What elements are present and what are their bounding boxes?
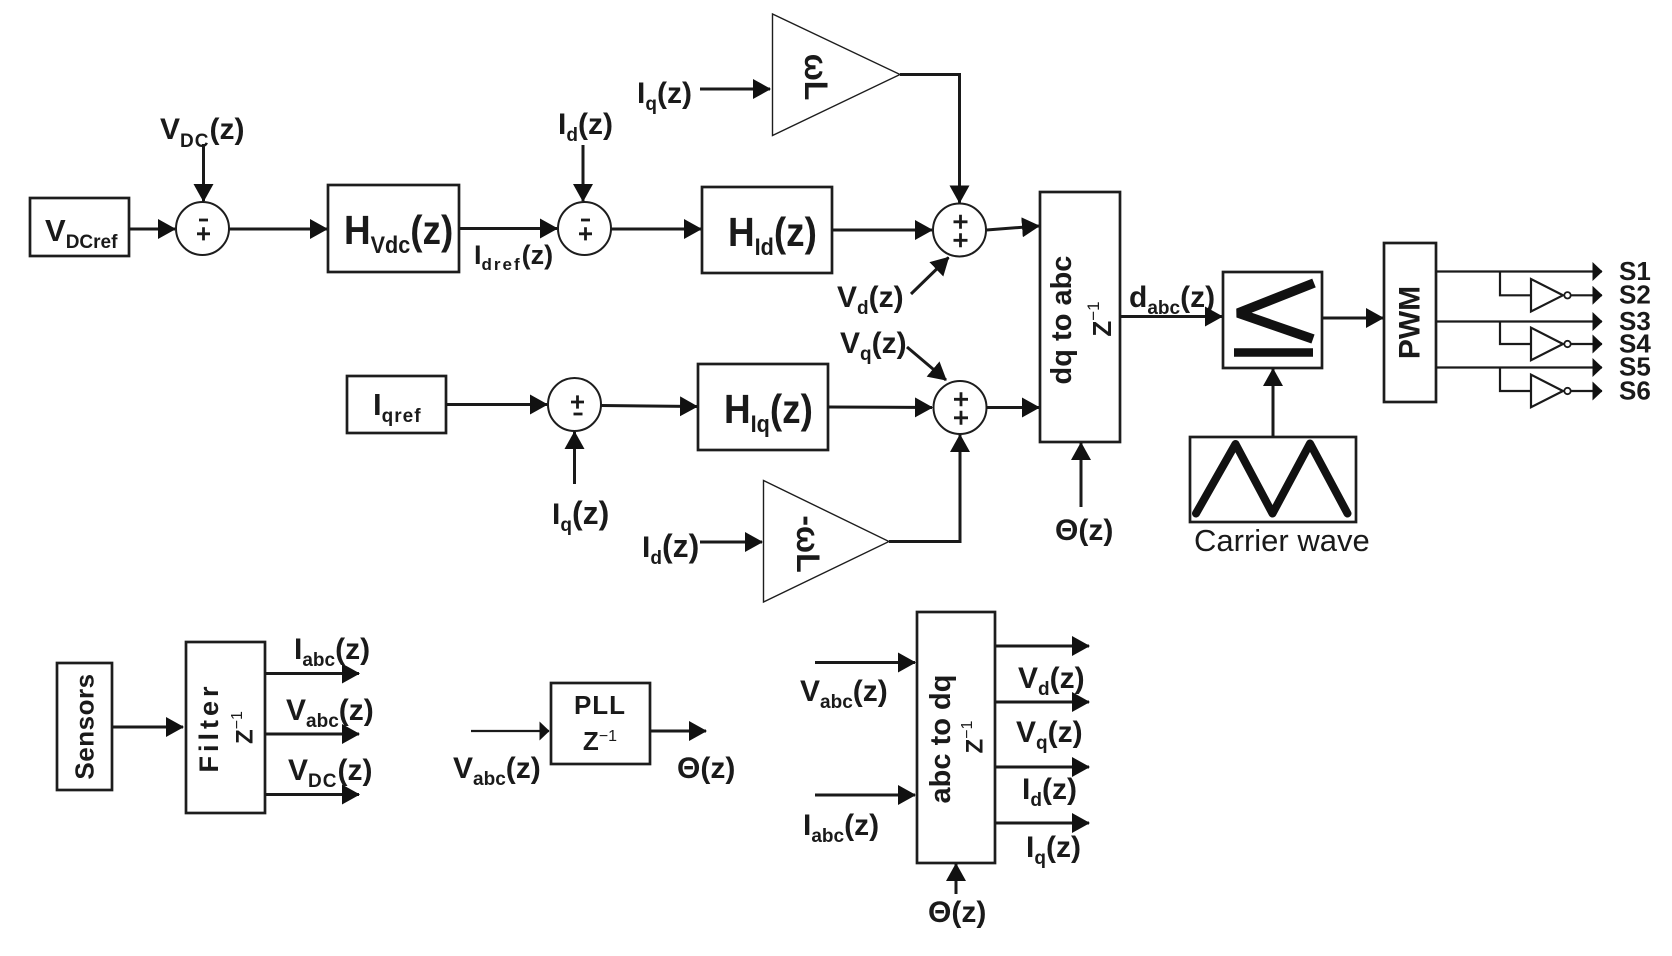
svg-text:Id(z): Id(z) [1022,773,1077,811]
wire VDCref to sum1 [129,228,175,231]
wire S5 from PWM [1436,366,1602,368]
wire Sensors to Filter [112,726,183,729]
svg-text:Iq(z): Iq(z) [637,77,692,115]
wire branch to gate2 [1500,322,1531,345]
wire Iqref to sum4 [446,403,547,406]
wire Filter out VDC [265,793,359,796]
svg-text:Vq(z): Vq(z) [1016,716,1083,754]
block HId [702,187,832,273]
wire comparator to PWM [1322,317,1383,320]
svg-text:Θ(z): Θ(z) [1055,514,1113,547]
wire branch to gate1 [1500,272,1531,296]
block Filter [186,642,265,813]
wire sum4 to HIq [601,406,697,407]
wire Id(z) to gain -wL [700,541,762,544]
wire Vq(z) into sum5 [907,347,946,380]
not gate G2 [1531,328,1571,361]
svg-text:Filter: Filter [194,682,224,772]
summing junction sum3 [933,204,986,257]
svg-text:Carrier wave: Carrier wave [1194,523,1370,558]
wire wL to sum3 [900,75,960,203]
svg-text:ωL: ωL [798,54,834,101]
wire Id(z) into sum2 [582,145,585,201]
block abc to dq [917,612,995,863]
svg-text:S2: S2 [1619,280,1651,310]
wire abcdq out Id [995,766,1089,769]
wire -wL to sum5 [889,435,960,542]
gain wL triangle [773,14,901,136]
wire sum2 to HId [611,228,701,231]
block Iqref [347,376,446,433]
svg-text:S6: S6 [1619,376,1651,406]
wire gate3 to S6 [1571,390,1602,392]
wire S1 from PWM [1436,270,1602,272]
svg-text:Id(z): Id(z) [558,108,613,146]
wire VDC(z) into sum1 [202,144,205,201]
block Sensors [57,663,112,790]
svg-text:dq to abc: dq to abc [1046,256,1078,385]
block VDCref [30,198,129,256]
svg-text:Θ(z): Θ(z) [677,752,735,785]
wire abcdq out Vq [995,701,1089,704]
wire PLL out [650,730,706,733]
wire Vd(z) into sum3 [911,258,949,295]
block dq to abc [1040,192,1120,442]
svg-text:abc to dq: abc to dq [925,675,957,804]
wire gate2 to S4 [1571,343,1602,345]
not gate G1 [1531,279,1571,312]
wire Vabc into PLL [471,730,549,732]
block PLL [551,683,650,764]
wire Iq(z) to gain wL [700,88,770,91]
svg-text:PWM: PWM [1394,286,1427,359]
wire Filter out Vabc [265,733,359,736]
wire Iabc into abcdq [815,794,915,797]
wire Filter out Iabc [265,672,359,675]
summing junction sum4 [548,378,601,431]
wire theta(z) into dq block [1080,443,1083,507]
wire S3 from PWM [1436,320,1602,322]
wire carrier to comparator [1272,369,1275,437]
not gate G3 [1531,375,1571,408]
wire Iq(z) up into sum4 [573,432,576,484]
svg-text:PLL: PLL [574,690,626,720]
wire abcdq out Vd [995,645,1089,648]
summing junction sum1 [176,202,229,255]
svg-text:Vd(z): Vd(z) [1018,662,1085,700]
wire gate1 to S2 [1571,294,1602,296]
wire dq block to comparator [1120,315,1222,318]
wire HId to sum3 [832,229,932,232]
svg-text:Θ(z): Θ(z) [928,896,986,929]
svg-text:Sensors: Sensors [70,673,100,779]
wire sum3 to dq block [987,226,1040,230]
svg-text:Iq(z): Iq(z) [1026,831,1081,869]
wire theta into abcdq [955,864,958,894]
summing junction sum5 [934,381,987,434]
wire branch to gate3 [1500,368,1531,392]
carrier wave block [1190,437,1356,522]
block PWM [1384,243,1436,402]
block HVdc [328,185,459,272]
summing junction sum2 [558,202,611,255]
block HIq [698,364,828,450]
wire HIq to sum5 [828,406,932,410]
comparator block [1223,272,1322,368]
svg-text:Vq(z): Vq(z) [840,327,907,365]
svg-text:Vd(z): Vd(z) [837,281,904,319]
wire sum1 to HVdc [229,228,327,231]
wire abcdq out Iq [995,822,1089,825]
wire sum5 to dq block [987,406,1040,409]
wire HVdc to sum2 [459,227,557,230]
wire Vabc into abcdq [815,661,915,664]
gain -wL triangle [764,481,890,603]
svg-text:-ωL: -ωL [790,515,826,572]
